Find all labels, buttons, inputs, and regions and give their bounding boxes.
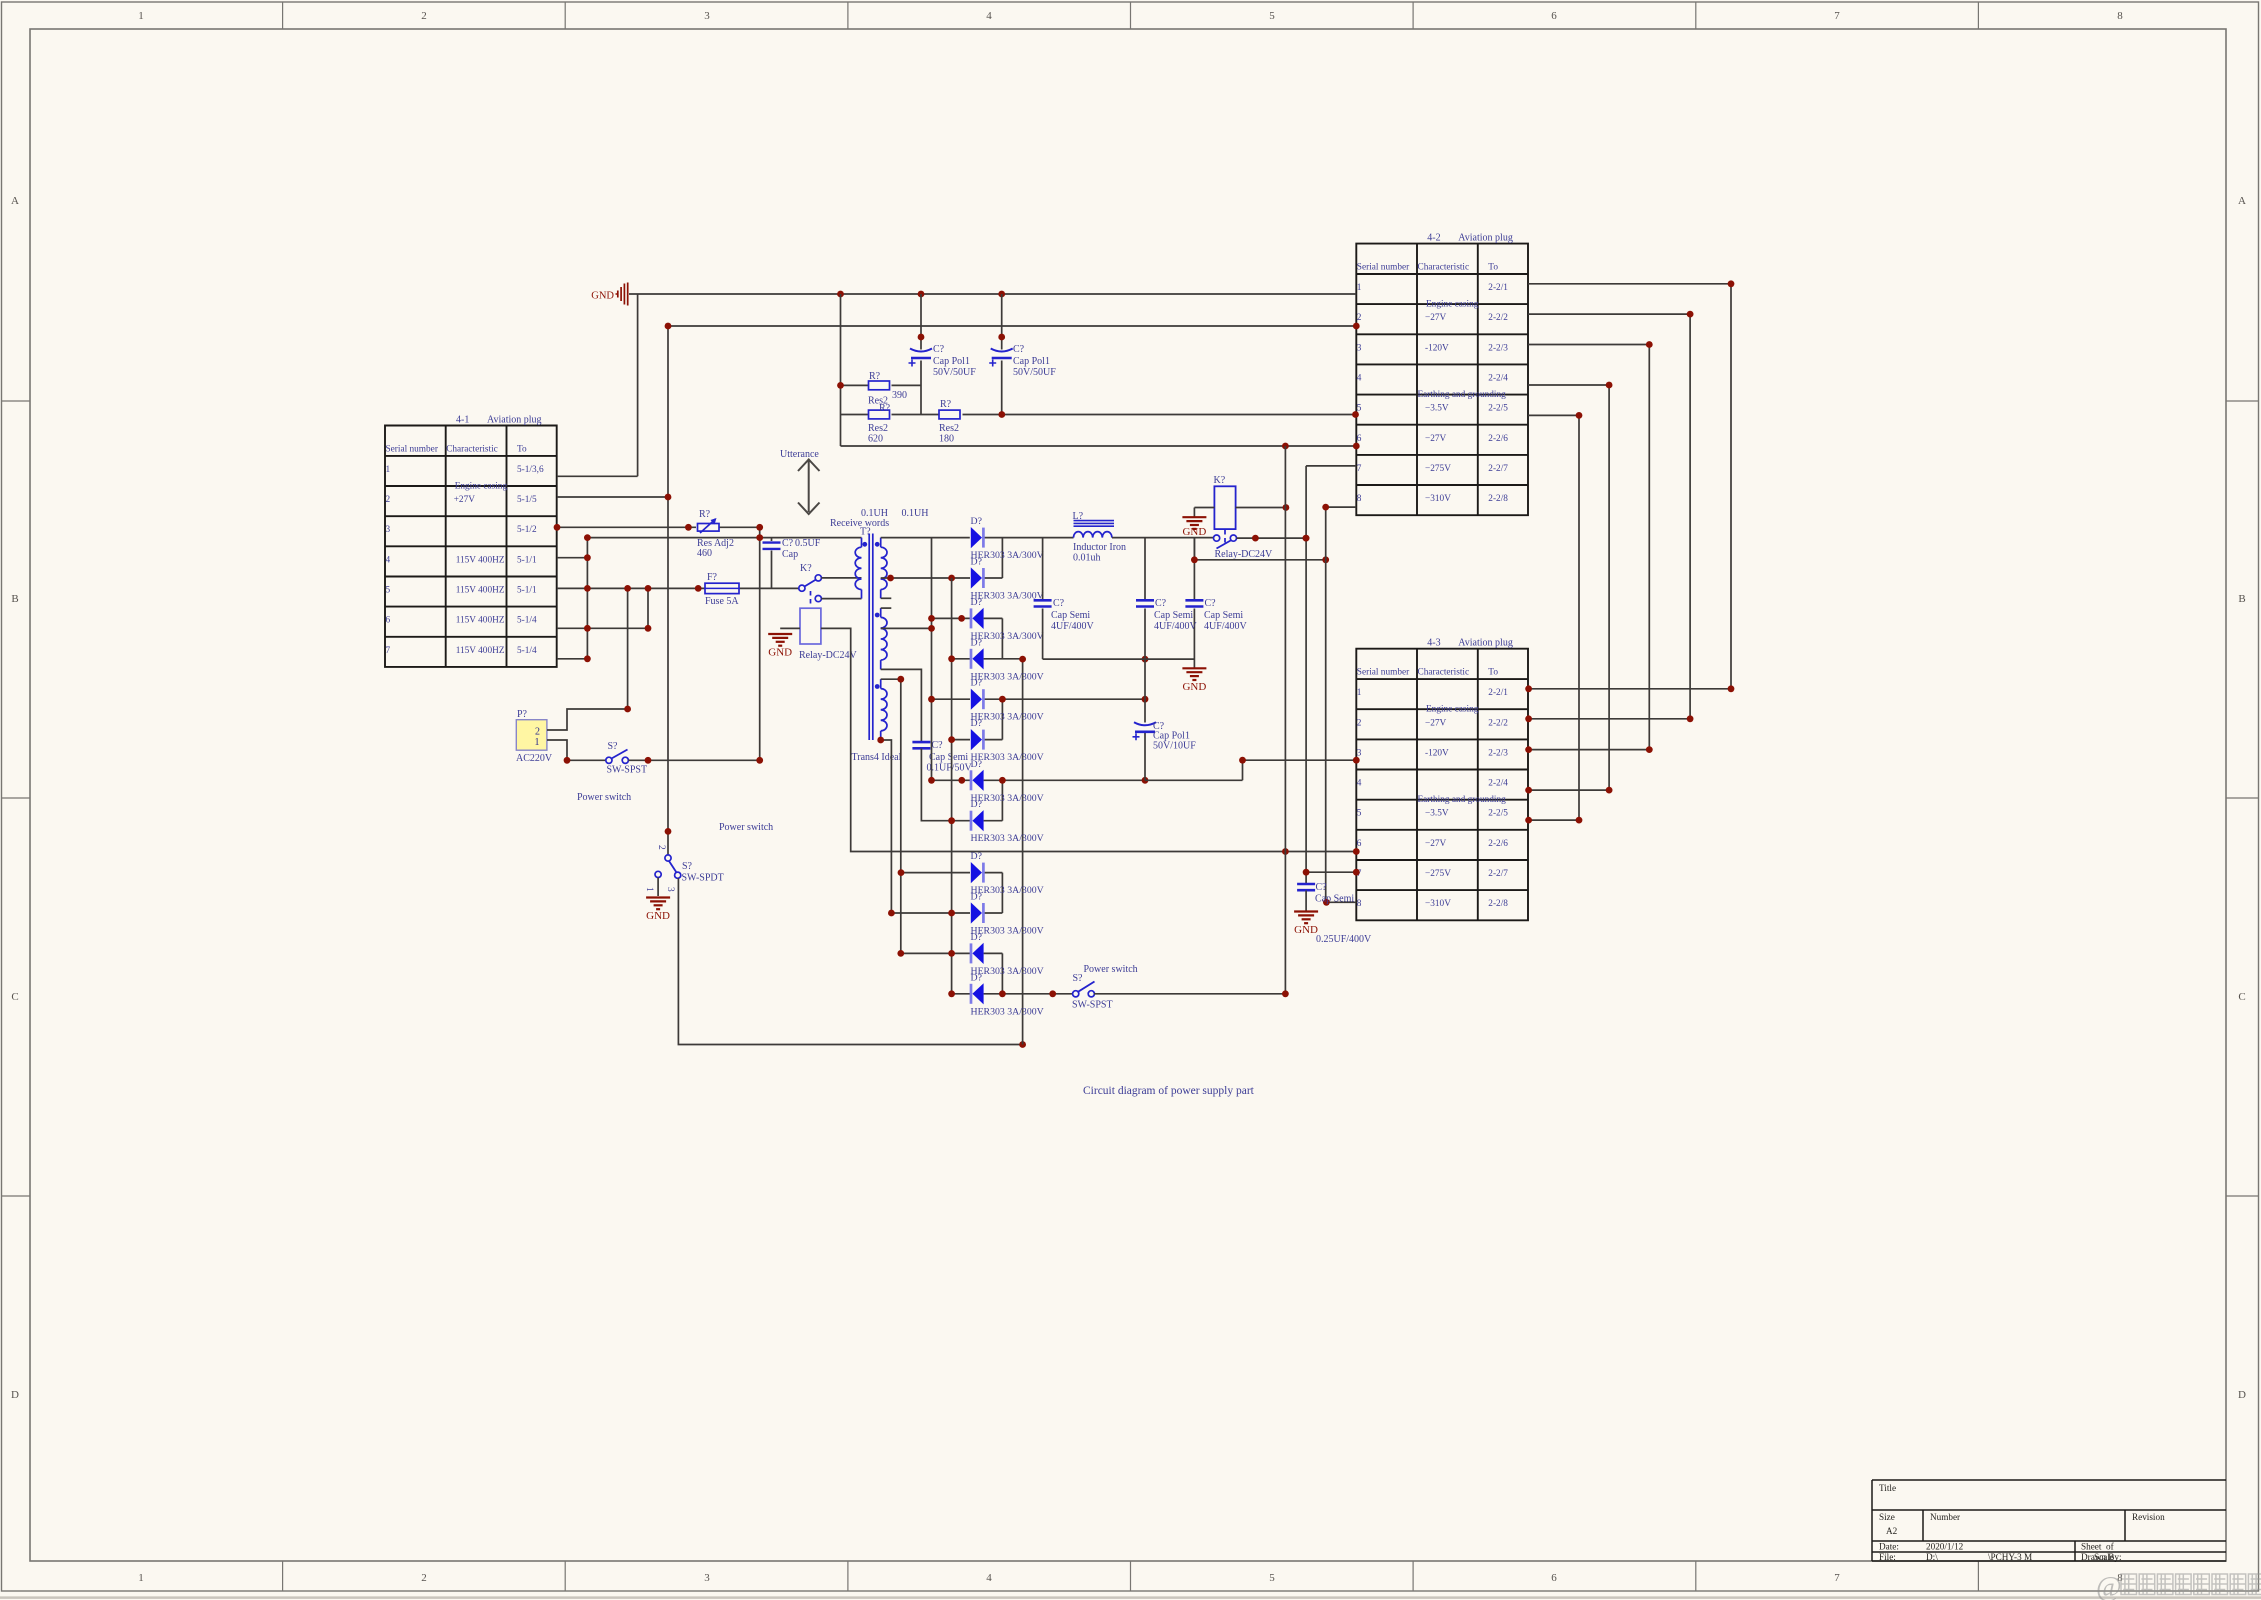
- svg-text:D?: D?: [971, 678, 982, 689]
- svg-text:1: 1: [1357, 688, 1362, 698]
- svg-text:0.1UF/50V: 0.1UF/50V: [927, 763, 973, 774]
- wire: GND bus to table 4-2 row1: [629, 293, 1356, 295]
- svg-text:460: 460: [697, 548, 712, 559]
- svg-text:D?: D?: [971, 759, 982, 770]
- svg-text:File:: File:: [1879, 1552, 1896, 1562]
- svg-text:of: of: [2106, 1542, 2115, 1552]
- svg-text:115V 400HZ: 115V 400HZ: [456, 555, 505, 565]
- wire: secondary1 bottom stub: [881, 597, 892, 599]
- junctions: 4-3 row6 wire: [1282, 848, 1360, 855]
- wire: 4-2 row3 to 4-3 row3: [1528, 345, 1649, 750]
- svg-text:4: 4: [1357, 373, 1362, 383]
- wire: 4-2 row4 to 4-3 row4: [1528, 385, 1609, 790]
- svg-text:Aviation plug: Aviation plug: [1458, 638, 1513, 649]
- svg-text:C?: C?: [782, 538, 794, 549]
- svg-text:8: 8: [2117, 10, 2123, 22]
- svg-text:8: 8: [1357, 899, 1362, 909]
- svg-text:\PCHY-3 M: \PCHY-3 M: [1988, 1552, 2032, 1562]
- resistor R? Res2 620: [869, 410, 890, 419]
- junctions: table fan: [1525, 280, 1734, 823]
- wire: cap pol1 #1 vertical x=921: [920, 294, 922, 415]
- capacitor C? Cap Pol1 50V/50UF #1: [909, 349, 933, 367]
- svg-text:Aviation plug: Aviation plug: [1458, 233, 1513, 244]
- wire: secondary2 bottom to 0.1UF cap: [881, 669, 922, 741]
- wire: secondary1 tap to diode row B: [881, 577, 970, 579]
- svg-text:4UF/400V: 4UF/400V: [1204, 621, 1248, 632]
- wire: diode row 5: [932, 698, 1146, 700]
- svg-text:Aviation plug: Aviation plug: [487, 415, 542, 426]
- svg-text:1: 1: [386, 465, 391, 475]
- svg-text:5: 5: [386, 586, 391, 596]
- wire: diode row 7: [932, 779, 1146, 781]
- wire: SPDT pin3 down to bottom rail: [678, 878, 1022, 1044]
- svg-text:F?: F?: [707, 572, 718, 583]
- wire: connector pin 2 to vertical: [547, 709, 628, 730]
- svg-text:L?: L?: [1073, 511, 1084, 522]
- svg-text:6: 6: [1551, 1572, 1557, 1584]
- svg-text:−3.5V: −3.5V: [1425, 404, 1449, 414]
- svg-text:−275V: −275V: [1425, 464, 1451, 474]
- wire: diode row 2: [984, 577, 1003, 579]
- svg-text:2-2/3: 2-2/3: [1488, 748, 1508, 758]
- wire: 4-1 row2 +27V: [557, 496, 668, 498]
- svg-text:Cap Semi: Cap Semi: [1051, 610, 1090, 621]
- svg-text:6: 6: [1357, 839, 1362, 849]
- wire: bus from inductor to relay switch: [1112, 537, 1214, 539]
- wire: R390 row: [841, 384, 922, 386]
- wire: diode row 1: [881, 537, 1074, 539]
- svg-text:2-2/3: 2-2/3: [1488, 343, 1508, 353]
- svg-text:115V 400HZ: 115V 400HZ: [456, 646, 505, 656]
- wire: cathode/anode pair links x=1002.4: [1001, 538, 1003, 994]
- wire: diode row 4: [952, 658, 1023, 660]
- wire: 0.25UF cap to ground: [1305, 891, 1307, 911]
- svg-text:5-1/4: 5-1/4: [517, 616, 537, 626]
- wire: diode row 9: [901, 872, 1003, 874]
- svg-text:1: 1: [1357, 283, 1362, 293]
- svg-text:1: 1: [644, 887, 654, 892]
- svg-text:3: 3: [386, 525, 391, 535]
- svg-text:C?: C?: [1155, 598, 1167, 609]
- svg-text:Title: Title: [1879, 1483, 1896, 1493]
- junction: bottom rail end: [1019, 1041, 1026, 1048]
- svg-text:4: 4: [386, 555, 391, 565]
- svg-text:6: 6: [1357, 434, 1362, 444]
- svg-text:Cap Pol1: Cap Pol1: [1013, 356, 1050, 367]
- capacitor C? Cap Semi 4UF/400V #2: [1136, 600, 1154, 606]
- svg-text:Res2: Res2: [939, 423, 959, 434]
- svg-text:A: A: [11, 195, 19, 207]
- wire: diode row 11: [901, 952, 1003, 954]
- ground (SPDT): [646, 898, 670, 923]
- svg-text:D: D: [2238, 1389, 2246, 1401]
- capacitor C? Cap Pol1 50V/50UF #2: [989, 349, 1013, 367]
- svg-text:2: 2: [1357, 718, 1362, 728]
- svg-text:SW-SPST: SW-SPST: [1072, 1000, 1113, 1011]
- power port GND (top left): [591, 283, 627, 306]
- svg-text:5: 5: [1269, 1572, 1275, 1584]
- diode D? HER303 #7: [971, 770, 984, 791]
- svg-text:A: A: [2238, 195, 2246, 207]
- svg-text:Inductor Iron: Inductor Iron: [1073, 542, 1126, 553]
- svg-text:5-1/1: 5-1/1: [517, 586, 537, 596]
- wire: cap pol1 #2 vertical x=1001.7: [1001, 294, 1003, 415]
- svg-text:GND: GND: [1182, 681, 1206, 693]
- wire: secondary2 tap to x=931.5: [881, 627, 932, 629]
- svg-text:2-2/8: 2-2/8: [1488, 494, 1508, 504]
- svg-text:5-1/3,6: 5-1/3,6: [517, 465, 544, 475]
- svg-text:3: 3: [1357, 343, 1362, 353]
- svg-text:4UF/400V: 4UF/400V: [1154, 621, 1198, 632]
- svg-text:2-2/5: 2-2/5: [1488, 809, 1508, 819]
- svg-text:390: 390: [892, 390, 907, 401]
- svg-text:620: 620: [868, 434, 883, 445]
- svg-text:Number: Number: [1930, 1512, 1960, 1522]
- svg-text:GND: GND: [646, 910, 670, 922]
- svg-text:−310V: −310V: [1425, 899, 1451, 909]
- svg-text:5: 5: [1269, 10, 1275, 22]
- wire: vertical x=951.6 (row B to row J): [951, 578, 953, 994]
- svg-text:-120V: -120V: [1425, 748, 1449, 758]
- wire: switched AC to pot vertical: [629, 759, 760, 761]
- wire: row J to -275V vertical: [1094, 993, 1285, 995]
- wire: -275V net vertical x=1306.1: [1306, 466, 1356, 884]
- ground (0.25UF cap): [1294, 912, 1318, 937]
- svg-text:50V/50UF: 50V/50UF: [1013, 367, 1056, 378]
- svg-text:2-2/1: 2-2/1: [1488, 688, 1508, 698]
- svg-text:GND: GND: [591, 291, 614, 302]
- svg-text:Relay-DC24V: Relay-DC24V: [1215, 549, 1274, 560]
- svg-text:D?: D?: [971, 799, 982, 810]
- table 4-1 Aviation plug: [385, 415, 557, 667]
- capacitor C? Cap Semi 0.1UF/50V: [912, 742, 930, 748]
- relay coil K? Relay-DC24V (left): [800, 608, 821, 644]
- wire: 0.5UF cap branch: [771, 538, 773, 589]
- diode D? HER303 #11: [971, 943, 984, 964]
- wire: diode row 6: [952, 739, 1003, 741]
- svg-text:−27V: −27V: [1425, 434, 1447, 444]
- svg-text:@: @: [2096, 1572, 2122, 1600]
- svg-text:C?: C?: [1053, 598, 1065, 609]
- inductor L? Inductor Iron 0.01uh: [1074, 521, 1115, 538]
- connector P? AC220V: [516, 720, 547, 751]
- svg-text:1: 1: [138, 1572, 144, 1584]
- svg-text:B: B: [11, 593, 18, 605]
- svg-text:C?: C?: [1316, 882, 1328, 893]
- svg-text:50V/10UF: 50V/10UF: [1153, 741, 1196, 752]
- svg-text:−275V: −275V: [1425, 869, 1451, 879]
- svg-text:To: To: [1488, 668, 1498, 678]
- wire: connector pin 1 to power switch: [547, 740, 606, 760]
- svg-text:R?: R?: [879, 403, 891, 414]
- relay switch K? (top right): [1214, 530, 1237, 549]
- svg-text:K?: K?: [1214, 475, 1226, 486]
- svg-text:C: C: [11, 991, 18, 1003]
- svg-text:Trans4 Ideal: Trans4 Ideal: [852, 752, 902, 763]
- svg-text:P?: P?: [517, 709, 528, 720]
- junctions: AC input area: [564, 706, 764, 835]
- wire: 0.1UF cap to diode row G: [921, 749, 951, 821]
- svg-text:D?: D?: [971, 557, 982, 568]
- svg-text:115V 400HZ: 115V 400HZ: [456, 616, 505, 626]
- switch S? SW-SPST (power switch, AC input): [606, 750, 629, 764]
- wire: cap #1 4UF vertical: [1042, 538, 1044, 660]
- svg-text:D?: D?: [971, 718, 982, 729]
- svg-text:Fuse 5A: Fuse 5A: [705, 596, 739, 607]
- svg-text:S?: S?: [1073, 973, 1084, 984]
- svg-text:0.25UF/400V: 0.25UF/400V: [1316, 934, 1372, 945]
- svg-text:A2: A2: [1886, 1526, 1898, 1536]
- watermark @ gold community (CJK approximated): [2096, 1572, 2261, 1600]
- wire: row F to 4-3 row 3 (-120V): [1145, 760, 1356, 780]
- svg-text:4-3: 4-3: [1427, 638, 1440, 649]
- svg-text:2-2/4: 2-2/4: [1488, 373, 1508, 383]
- capacitor C? Cap Semi 4UF/400V #3: [1185, 600, 1203, 606]
- wire: secondary2 top stub: [881, 607, 892, 609]
- svg-text:SW-SPST: SW-SPST: [607, 765, 648, 776]
- capacitor C? Cap Semi 4UF/400V #1: [1034, 600, 1052, 606]
- svg-text:Engine casing: Engine casing: [455, 481, 508, 491]
- wire: relay coil left to ground: [780, 627, 800, 629]
- svg-text:HER303 3A/300V: HER303 3A/300V: [971, 1006, 1044, 1017]
- svg-text:GND: GND: [1294, 924, 1318, 936]
- wire: -27V vertical x=1285.4: [1284, 446, 1286, 994]
- svg-text:R?: R?: [699, 509, 711, 520]
- wire: pot output vertical x=759.7: [759, 527, 761, 760]
- switch S? SW-SPST (power switch, -275V): [1073, 982, 1095, 997]
- svg-text:4: 4: [986, 10, 992, 22]
- svg-text:C?: C?: [933, 344, 945, 355]
- switch S? SW-SPDT (power switch): [655, 855, 681, 878]
- svg-text:−27V: −27V: [1425, 718, 1447, 728]
- svg-text:R?: R?: [940, 399, 952, 410]
- ground (left relay): [768, 634, 792, 659]
- transformer T? Trans4 Ideal: [855, 534, 887, 741]
- wire: 4-1 row5 / fuse wire: [557, 587, 800, 589]
- svg-text:4: 4: [986, 1572, 992, 1584]
- svg-text:2: 2: [1357, 313, 1362, 323]
- svg-text:Utterance: Utterance: [780, 449, 819, 460]
- svg-text:115V 400HZ: 115V 400HZ: [456, 586, 505, 596]
- svg-text:Power switch: Power switch: [577, 792, 631, 803]
- svg-text:Characteristic: Characteristic: [446, 445, 498, 455]
- svg-text:C?: C?: [1205, 598, 1217, 609]
- wire: cap #2 / Cap Pol1 50V/10UF vertical: [1144, 538, 1146, 781]
- svg-text:2-2/5: 2-2/5: [1488, 404, 1508, 414]
- svg-text:R?: R?: [869, 371, 881, 382]
- svg-text:50V/50UF: 50V/50UF: [933, 367, 976, 378]
- diode D? HER303 #6: [971, 729, 984, 750]
- title block: [1872, 1480, 2226, 1562]
- wire: diode row 12: [952, 993, 1073, 995]
- resistor R? Res2 180: [939, 410, 960, 419]
- svg-text:Earthing and grounding: Earthing and grounding: [1418, 390, 1507, 400]
- svg-text:D?: D?: [971, 851, 982, 862]
- junctions: resistor cluster: [837, 323, 1360, 450]
- svg-text:D?: D?: [971, 597, 982, 608]
- relay switch K? (left): [799, 575, 822, 607]
- svg-text:7: 7: [1834, 10, 1840, 22]
- svg-text:−310V: −310V: [1425, 494, 1451, 504]
- svg-text:2-2/7: 2-2/7: [1488, 869, 1508, 879]
- svg-text:Cap Semi: Cap Semi: [1154, 610, 1193, 621]
- wire: cap #3 vertical with GND: [1193, 538, 1195, 667]
- fuse F? Fuse 5A: [705, 583, 739, 593]
- diode D? HER303 #5: [971, 689, 984, 710]
- svg-text:Cap Semi: Cap Semi: [929, 752, 968, 763]
- svg-text:Power switch: Power switch: [719, 822, 773, 833]
- wire: secondary3 top stub to vertical x=900.8: [881, 679, 901, 953]
- svg-text:7: 7: [1834, 1572, 1840, 1584]
- svg-text:To: To: [517, 445, 527, 455]
- svg-text:3: 3: [704, 10, 710, 22]
- svg-text:D?: D?: [971, 972, 982, 983]
- svg-text:5-1/1: 5-1/1: [517, 555, 537, 565]
- wire: relay throw 1 to primary tap: [821, 577, 861, 579]
- svg-text:5: 5: [1357, 809, 1362, 819]
- resistor R? Res2 390: [869, 381, 890, 390]
- svg-text:To: To: [1488, 263, 1498, 273]
- svg-text:Serial number: Serial number: [1357, 668, 1410, 678]
- svg-text:Scale: Scale: [2094, 1552, 2114, 1562]
- wire: 4-2 row2 to 4-3 row2: [1528, 314, 1690, 719]
- svg-text:+27V: +27V: [454, 495, 476, 505]
- svg-text:D?: D?: [971, 932, 982, 943]
- svg-text:2: 2: [421, 1572, 427, 1584]
- diode D? HER303 #9: [971, 862, 984, 883]
- svg-text:−27V: −27V: [1425, 313, 1447, 323]
- wire: 4-1 row4 jog to main bus: [557, 538, 587, 659]
- svg-text:C?: C?: [932, 740, 944, 751]
- svg-text:D:\: D:\: [1926, 1552, 1938, 1562]
- wire: 4-1 row3 / potentiometer net: [557, 526, 696, 528]
- svg-text:Engine casing: Engine casing: [1426, 300, 1479, 310]
- svg-text:D?: D?: [971, 516, 982, 527]
- svg-text:-120V: -120V: [1425, 343, 1449, 353]
- svg-text:6: 6: [386, 616, 391, 626]
- diode D? HER303 #12: [971, 983, 984, 1004]
- svg-text:GND: GND: [1182, 526, 1206, 538]
- svg-text:GND: GND: [768, 647, 792, 659]
- junctions: right verticals: [1282, 504, 1360, 997]
- capacitor C? Cap Semi 0.25UF/400V: [1297, 884, 1315, 890]
- svg-text:D?: D?: [971, 637, 982, 648]
- capacitor C? Cap 0.5UF: [763, 543, 781, 549]
- svg-text:4-2: 4-2: [1427, 233, 1440, 244]
- utterance double arrow: [798, 460, 820, 515]
- svg-text:T?: T?: [860, 527, 871, 538]
- svg-text:Relay-DC24V: Relay-DC24V: [799, 650, 858, 661]
- wire: bus stub down to -310V wire: [1194, 538, 1325, 560]
- svg-text:Characteristic: Characteristic: [1418, 668, 1470, 678]
- wire: vertical from GND bus to 4-1 row1: [557, 294, 638, 476]
- svg-text:Res2: Res2: [868, 423, 888, 434]
- svg-text:2020/1/12: 2020/1/12: [1926, 1542, 1964, 1552]
- svg-text:2-2/7: 2-2/7: [1488, 464, 1508, 474]
- svg-text:2: 2: [656, 845, 666, 850]
- svg-text:D: D: [11, 1389, 19, 1401]
- relay coil K? Relay-DC24V (top right): [1214, 486, 1235, 529]
- wire: -27V bus to table 4-2 row2: [668, 325, 1356, 327]
- wire: secondary3 bottom to vertical x=891.4: [881, 740, 892, 913]
- svg-text:7: 7: [386, 646, 391, 656]
- svg-text:8: 8: [1357, 494, 1362, 504]
- svg-text:Cap: Cap: [782, 549, 798, 560]
- svg-text:Circuit diagram of power suppl: Circuit diagram of power supply part: [1083, 1085, 1255, 1097]
- svg-text:5-1/4: 5-1/4: [517, 646, 537, 656]
- table 4-3 Aviation plug: [1356, 638, 1528, 921]
- svg-text:3: 3: [704, 1572, 710, 1584]
- svg-text:Characteristic: Characteristic: [1418, 263, 1470, 273]
- diode D? HER303 #4: [971, 648, 984, 669]
- wire: diode row 8: [952, 820, 1003, 822]
- diode D? HER303 #2: [971, 567, 984, 588]
- wire: diode row 10: [891, 912, 1002, 914]
- svg-text:0.5UF: 0.5UF: [795, 538, 821, 549]
- junctions: left bus area: [554, 291, 1006, 663]
- svg-text:Revision: Revision: [2132, 1512, 2165, 1522]
- potentiometer R? Res Adj2 460: [698, 518, 720, 533]
- svg-text:−3.5V: −3.5V: [1425, 809, 1449, 819]
- wire: vertical x=627.6 to connector P: [627, 588, 629, 709]
- svg-text:Cap Semi: Cap Semi: [1204, 610, 1243, 621]
- ground (filter caps): [1182, 668, 1206, 693]
- wire: lower bus y=446 to table 4-2 row6: [841, 445, 1357, 447]
- wire: vertical x=1022.6 (row D to bottom rail): [1022, 659, 1024, 1044]
- svg-text:Sheet: Sheet: [2081, 1542, 2102, 1552]
- wire: diode row 3: [932, 617, 1003, 619]
- diode D? HER303 #10: [971, 902, 984, 923]
- svg-text:Cap Pol1: Cap Pol1: [933, 356, 970, 367]
- capacitor C? Cap Pol1 50V/10UF: [1133, 722, 1157, 740]
- svg-text:Serial number: Serial number: [386, 445, 439, 455]
- svg-text:3: 3: [1357, 748, 1362, 758]
- wire: vertical x=931.5 (bus to row F): [931, 538, 933, 781]
- photo bottom edge shading: [0, 1596, 2261, 1599]
- wire: SPDT pin1 to ground: [657, 878, 659, 897]
- svg-text:AC220V: AC220V: [516, 753, 553, 764]
- svg-text:Size: Size: [1879, 1512, 1895, 1522]
- ground (top-right relay): [1182, 517, 1206, 538]
- wire: Res2 620/180 row to table 4-2 row5: [841, 414, 1357, 416]
- wire: vertical x=840.5 (R390 branch): [840, 294, 842, 446]
- svg-text:Engine casing: Engine casing: [1426, 705, 1479, 715]
- svg-text:Earthing and grounding: Earthing and grounding: [1418, 795, 1507, 805]
- wire: relay output bus to -275V vertical: [1237, 537, 1306, 539]
- svg-text:Serial number: Serial number: [1357, 263, 1410, 273]
- svg-text:2: 2: [421, 10, 427, 22]
- svg-text:0.1UH: 0.1UH: [902, 508, 929, 519]
- svg-text:2-2/4: 2-2/4: [1488, 779, 1508, 789]
- wire: -310V net vertical x=1325.7: [1326, 507, 1357, 902]
- wire: 4-2 row1 to 4-3 row1: [1528, 284, 1731, 689]
- table 4-2 Aviation plug: [1356, 233, 1528, 516]
- wire: 4-1 rows 6,7: [557, 588, 648, 658]
- svg-text:6: 6: [1551, 10, 1557, 22]
- svg-text:D?: D?: [971, 892, 982, 903]
- wire: 4-2 row5 to 4-3 row5: [1528, 415, 1579, 820]
- svg-text:S?: S?: [682, 861, 693, 872]
- wire: relay coil left to GND: [1194, 508, 1214, 517]
- svg-text:−27V: −27V: [1425, 839, 1447, 849]
- svg-text:3: 3: [665, 887, 675, 892]
- svg-text:5-1/2: 5-1/2: [517, 525, 537, 535]
- svg-text:2-2/1: 2-2/1: [1488, 283, 1508, 293]
- junctions: relay output: [1191, 504, 1329, 563]
- svg-text:0.01uh: 0.01uh: [1073, 553, 1101, 564]
- svg-text:2: 2: [386, 495, 391, 505]
- svg-text:K?: K?: [800, 563, 812, 574]
